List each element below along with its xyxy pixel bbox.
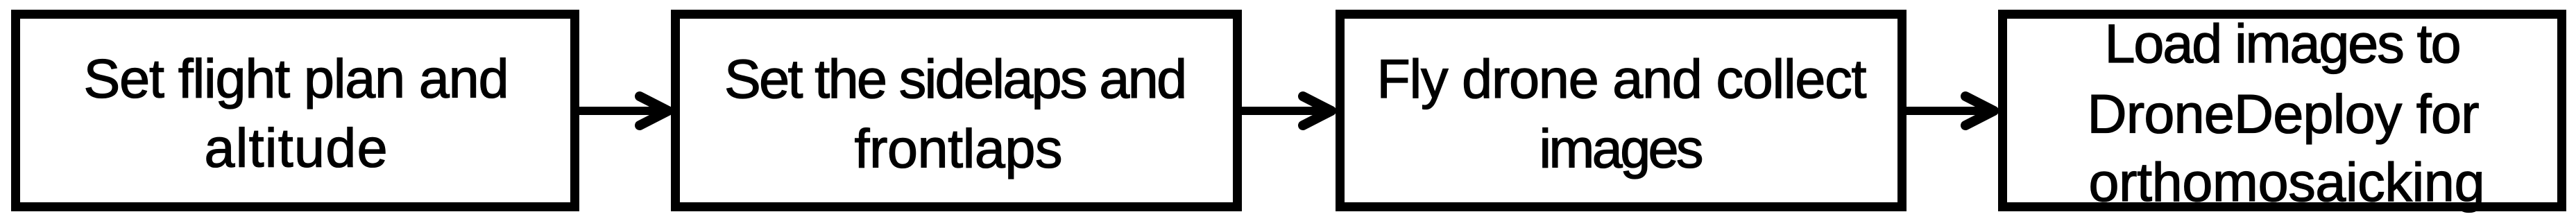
svg-text:Fly drone and collect: Fly drone and collect xyxy=(1377,48,1867,109)
arrow 1 shaft xyxy=(578,107,659,115)
svg-text:images: images xyxy=(1539,118,1704,179)
svg-text:Set the sidelaps and: Set the sidelaps and xyxy=(724,48,1187,109)
process box 1: Set flight plan and altitude xyxy=(16,15,575,207)
process box 4: Load images to DroneDeploy for orthomosaicking xyxy=(2003,15,2562,207)
arrow 3 shaft xyxy=(1905,107,1985,115)
arrow 3 head xyxy=(1965,96,1994,125)
arrow 1 head xyxy=(640,96,668,125)
arrow 2 shaft xyxy=(1240,107,1322,115)
svg-text:frontlaps: frontlaps xyxy=(855,118,1063,179)
svg-text:DroneDeploy for: DroneDeploy for xyxy=(2088,83,2480,145)
svg-text:orthomosaicking: orthomosaicking xyxy=(2089,151,2485,213)
process box 3: Fly drone and collect images xyxy=(1340,15,1902,207)
svg-text:Set flight plan and: Set flight plan and xyxy=(84,48,509,109)
svg-text:altitude: altitude xyxy=(205,117,388,179)
svg-text:Load images to: Load images to xyxy=(2105,12,2462,74)
process box 2: Set the sidelaps and frontlaps xyxy=(676,15,1238,207)
arrow 2 head xyxy=(1303,96,1331,125)
